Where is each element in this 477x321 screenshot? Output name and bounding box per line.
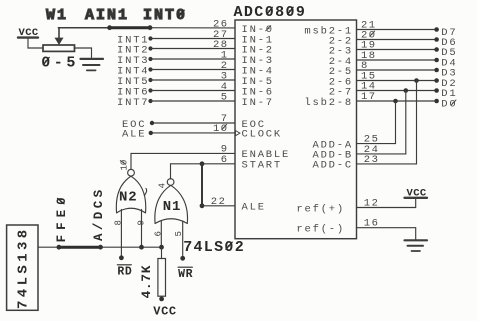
node D7: [434, 27, 457, 39]
wire ref(-) pin 16 to ground: [357, 228, 416, 240]
data output wire D0 pin 17: [357, 100, 435, 102]
wire D0 to ADD-A: [357, 101, 396, 144]
junction A/DCS: [98, 245, 103, 250]
wire INT7 to pin 5: [151, 100, 236, 102]
svg-text:WR: WR: [178, 268, 193, 281]
svg-text:CLOCK: CLOCK: [242, 129, 283, 141]
node RD: [119, 255, 124, 260]
svg-text:FFE0: FFE0: [55, 192, 69, 242]
node D0: [434, 99, 457, 111]
wire INT3 to pin 1: [151, 58, 236, 60]
net label INT2: [117, 45, 153, 57]
node D3: [434, 68, 457, 80]
resistor R1 4.7K body: [158, 259, 166, 297]
svg-text:ref(+): ref(+): [296, 203, 345, 215]
node D6: [434, 37, 457, 49]
signal label WR (active low): [178, 267, 193, 281]
svg-text:17: 17: [361, 91, 377, 103]
ground (pot): [81, 59, 104, 71]
junction D2 to ADD-C: [414, 78, 419, 83]
node VCC pullup: [159, 297, 164, 302]
junction AIN1: [107, 25, 112, 30]
data output wire D4 pin 18: [357, 59, 435, 61]
clock input triangle: [235, 131, 240, 136]
wire INT4 to pin 2: [151, 69, 236, 71]
svg-text:4: 4: [158, 183, 168, 188]
IC 74LS138 box: [7, 225, 38, 310]
node D1: [434, 88, 457, 100]
data output wire D5 pin 19: [357, 49, 435, 51]
net label INT4: [117, 66, 153, 78]
svg-text:6: 6: [221, 154, 229, 166]
junction FFE0: [57, 245, 62, 250]
wire EOC to pin 7: [154, 122, 235, 124]
svg-text:IN-7: IN-7: [242, 97, 274, 109]
small stroke artifact right of N2: [145, 189, 147, 196]
junction ALE: [200, 203, 205, 208]
wiper arrowhead: [55, 38, 64, 45]
svg-text:74LS138: 74LS138: [15, 226, 31, 309]
wire resistor to VCC: [161, 296, 163, 298]
data output wire D3 pin 8: [357, 69, 435, 71]
svg-text:0-5: 0-5: [41, 55, 79, 72]
net label INT3: [117, 55, 153, 67]
wire thick segment FFE0 to A/DCS: [59, 246, 101, 249]
svg-text:INT0: INT0: [143, 7, 187, 24]
svg-text:ref(-): ref(-): [296, 224, 345, 236]
signal label RD (active low): [117, 265, 132, 279]
svg-text:N1: N1: [163, 199, 182, 215]
wire to ALE pin 22: [202, 205, 235, 207]
svg-text:22: 22: [211, 196, 227, 208]
power VCC top-left: [18, 27, 39, 39]
svg-text:VCC: VCC: [153, 305, 176, 319]
net label INT7: [117, 97, 153, 109]
wire AIN1/INT0 net to IN-0 pin 26: [58, 27, 109, 29]
junction D0 to ADD-A: [393, 99, 398, 104]
svg-text:INT7: INT7: [117, 97, 149, 109]
power VCC ref(+): [405, 187, 428, 199]
data output wire D2 pin 15: [357, 80, 435, 82]
net label ALE: [122, 129, 153, 141]
wire START to ALE vertical: [201, 164, 203, 206]
svg-text:lsb2-8: lsb2-8: [304, 97, 353, 109]
net label INT5: [117, 76, 153, 88]
wire wiper vertical: [58, 28, 60, 39]
wire pot right to ground: [74, 48, 92, 58]
gate N1 output bubble: [167, 179, 174, 186]
gate N2 body (NOR 74LS02): [116, 176, 145, 213]
gate N2 output bubble: [128, 169, 135, 176]
wire thick segment AIN1-INT0: [110, 26, 150, 29]
node WR: [180, 256, 185, 261]
svg-text:A/DCS: A/DCS: [92, 186, 106, 241]
svg-text:N2: N2: [119, 190, 138, 206]
svg-text:5: 5: [221, 92, 229, 104]
potentiometer W1 body: [43, 45, 75, 51]
svg-text:16: 16: [364, 218, 380, 230]
svg-text:RD: RD: [117, 266, 132, 279]
svg-text:9: 9: [136, 220, 146, 225]
data output wire D7 pin 21: [357, 29, 435, 31]
node D5: [434, 47, 457, 59]
node D4: [434, 58, 457, 70]
svg-text:ADD-C: ADD-C: [312, 160, 353, 172]
wire N2 input pin 8 to RD: [120, 210, 122, 258]
svg-text:W1: W1: [46, 7, 68, 24]
junction START/ALE: [200, 161, 205, 166]
net label EOC: [122, 119, 154, 131]
slashed-zero marks: [43, 7, 293, 249]
svg-text:START: START: [242, 160, 283, 172]
wire N2 input pin 9 to net: [141, 210, 143, 248]
svg-text:4.7K: 4.7K: [139, 265, 154, 299]
op-amp/IC U1 ADC0809 body: [235, 20, 357, 239]
junction pin 9: [139, 245, 144, 250]
svg-text:6: 6: [154, 231, 164, 236]
gate N1 body (NOR 74LS02): [155, 185, 188, 223]
wire INT2 to pin 28: [151, 48, 236, 50]
net label INT1: [117, 35, 153, 47]
junction D1 to ADD-B: [404, 88, 409, 93]
wire START pin 6 to gate N1 output: [171, 164, 236, 179]
svg-text:74LS02: 74LS02: [183, 239, 245, 256]
ground (ref-): [405, 240, 428, 251]
wire VCC to potentiometer left: [28, 39, 43, 48]
wire 74LS138 to gates net: [38, 246, 162, 248]
svg-text:ALE: ALE: [242, 202, 266, 214]
wire ref(+) pin 12 to VCC: [357, 199, 416, 208]
svg-text:23: 23: [364, 154, 380, 166]
wire N1 input pin 5 to WR: [182, 221, 184, 258]
wire INT1 to pin 27: [151, 38, 236, 40]
svg-text:8: 8: [113, 220, 123, 225]
svg-text:12: 12: [364, 198, 380, 210]
wire D1 to ADD-B: [357, 91, 406, 154]
junction pin 6 / resistor: [159, 245, 164, 250]
data output wire D6 pin 20: [357, 39, 435, 41]
data output wire D1 pin 14: [357, 90, 435, 92]
junction INT0: [148, 25, 153, 30]
wire net to resistor top: [161, 247, 163, 258]
wire ENABLE pin 9 to gate N2 output: [131, 153, 235, 169]
wire N1 input pin 6 to net: [160, 221, 162, 248]
svg-text:ADC0809: ADC0809: [234, 4, 307, 21]
svg-text:ALE: ALE: [122, 129, 146, 141]
svg-text:5: 5: [174, 231, 184, 236]
wire INT6 to pin 4: [151, 90, 236, 92]
wire ALE to clock pin 10: [153, 132, 235, 134]
net label INT6: [117, 87, 153, 99]
svg-text:AIN1: AIN1: [85, 7, 129, 24]
wire INT5 to pin 3: [151, 79, 236, 81]
node D2: [434, 78, 457, 90]
wire D2 to ADD-C: [357, 81, 417, 164]
